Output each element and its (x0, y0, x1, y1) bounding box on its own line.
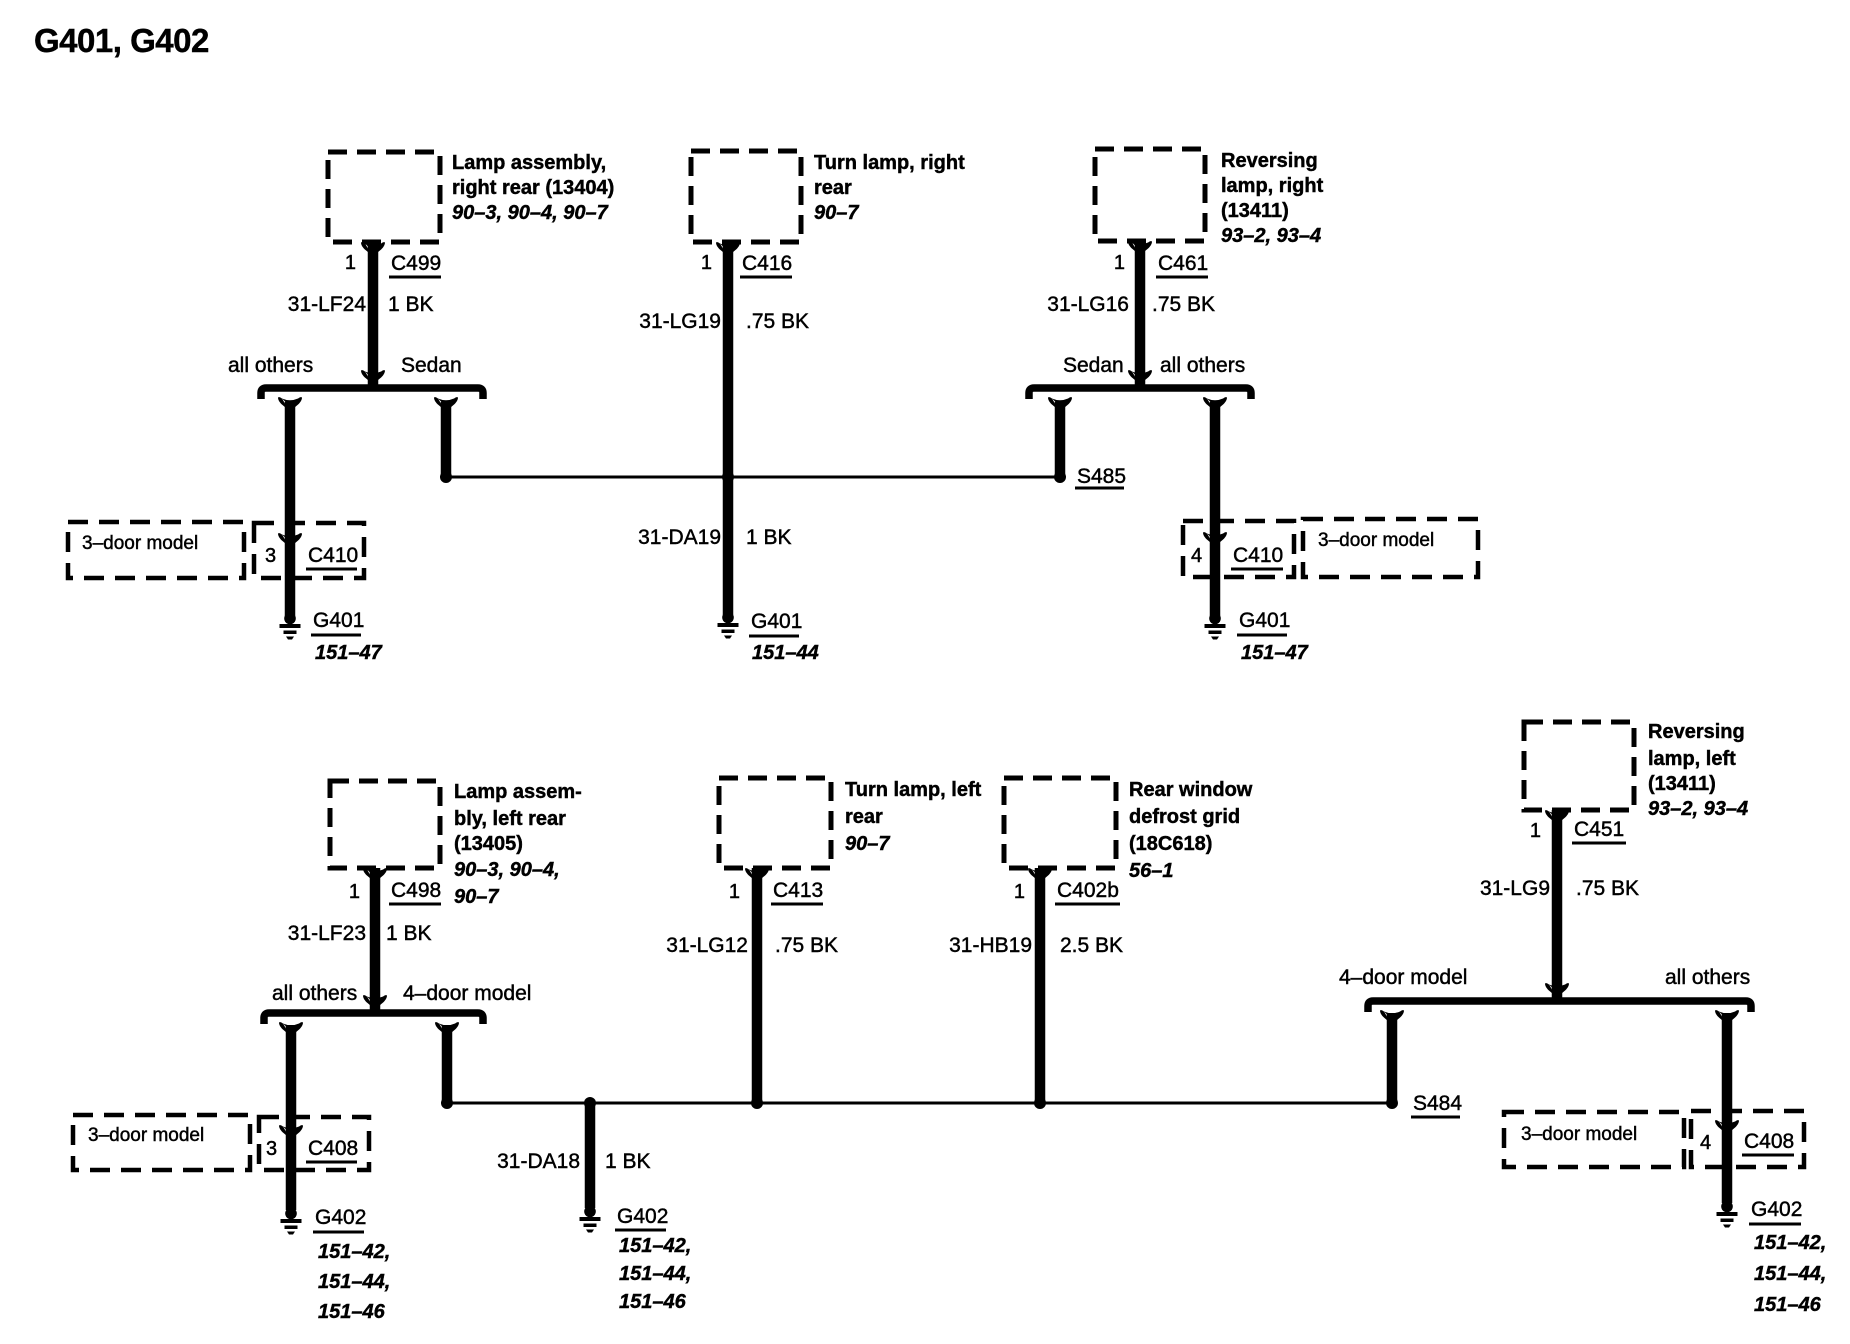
svg-text:4: 4 (1191, 545, 1202, 567)
svg-text:.75 BK: .75 BK (746, 310, 809, 333)
branch wire Sedan (right bracket) down to S485 (1055, 402, 1066, 477)
underline C408 left (306, 1161, 357, 1164)
svg-text:C413: C413 (773, 879, 823, 902)
svg-text:G401: G401 (313, 609, 364, 632)
branch all others down to ground G402 (286, 1025, 297, 1210)
svg-text:3: 3 (266, 1138, 277, 1160)
turn lamp right rear box (691, 151, 801, 242)
svg-text:90–7: 90–7 (814, 202, 859, 224)
svg-text:right rear (13404): right rear (13404) (452, 177, 614, 199)
turn lamp left rear box (719, 778, 831, 868)
branch arrow all others (bottom-right bracket) (1715, 1010, 1739, 1025)
svg-text:C408: C408 (1744, 1130, 1794, 1153)
svg-text:151–42,: 151–42, (318, 1241, 390, 1263)
connector C416 arrow (716, 242, 740, 257)
junction dot S485 (1054, 471, 1066, 483)
underline G402 middle (615, 1229, 666, 1232)
svg-text:G402: G402 (1751, 1198, 1802, 1221)
svg-text:C410: C410 (308, 544, 358, 567)
underline C498 (389, 903, 441, 906)
svg-text:1: 1 (1114, 252, 1125, 274)
connector C499 arrow (361, 242, 385, 257)
svg-text:.75 BK: .75 BK (1152, 293, 1215, 316)
svg-text:151–44: 151–44 (752, 642, 819, 664)
svg-text:G402: G402 (617, 1205, 668, 1228)
ground G401 right symbol (1205, 613, 1226, 640)
svg-text:151–46: 151–46 (1754, 1294, 1822, 1316)
svg-text:31-LG19: 31-LG19 (639, 310, 721, 333)
wire from reversing lamp left to bracket (1552, 810, 1563, 999)
connector C451 arrow (1545, 810, 1569, 825)
branch 4-door model down to junction line (442, 1025, 453, 1103)
underline C402b (1055, 903, 1120, 906)
branch arrow Sedan (left bracket) (434, 397, 458, 412)
svg-text:lamp, left: lamp, left (1648, 748, 1736, 770)
svg-text:Reversing: Reversing (1648, 721, 1745, 743)
junction dot at C413 wire (751, 1097, 763, 1109)
wire from lamp assembly left to bracket (370, 868, 381, 1011)
svg-text:151–47: 151–47 (315, 642, 383, 664)
svg-text:(13411): (13411) (1648, 773, 1716, 795)
svg-text:31-LF24: 31-LF24 (288, 293, 367, 316)
svg-text:31-HB19: 31-HB19 (949, 934, 1032, 957)
svg-text:31-LG9: 31-LG9 (1480, 877, 1550, 900)
underline C413 (771, 903, 823, 906)
branch arrow all others (left bracket) (278, 397, 302, 412)
svg-text:3–door model: 3–door model (82, 533, 198, 554)
svg-text:all others: all others (1665, 966, 1750, 989)
underline G402 left (313, 1231, 364, 1234)
svg-text:4–door model: 4–door model (403, 982, 531, 1005)
svg-text:lamp, right: lamp, right (1221, 175, 1324, 197)
svg-text:31-LF23: 31-LF23 (288, 922, 366, 945)
svg-text:1: 1 (729, 881, 740, 903)
svg-text:4–door model: 4–door model (1339, 966, 1467, 989)
connector C461 arrow (1128, 241, 1152, 256)
connector C408 arrow left (279, 1125, 303, 1140)
svg-text:G401, G402: G401, G402 (34, 22, 209, 59)
svg-text:(13411): (13411) (1221, 200, 1289, 222)
connector C410 box left (254, 523, 364, 578)
svg-text:(18C618): (18C618) (1129, 833, 1212, 855)
svg-text:Sedan: Sedan (1063, 354, 1124, 377)
junction dot at ground drop (584, 1097, 596, 1109)
svg-text:G402: G402 (315, 1206, 366, 1229)
svg-text:C451: C451 (1574, 818, 1624, 841)
svg-text:1: 1 (1530, 820, 1541, 842)
svg-text:C498: C498 (391, 879, 441, 902)
connector C408 box right (1691, 1111, 1804, 1167)
svg-text:(13405): (13405) (454, 833, 523, 855)
ground G401 left symbol (280, 613, 301, 640)
ground G402 middle symbol (580, 1206, 601, 1233)
underline G401 right (1237, 634, 1287, 637)
svg-text:Rear window: Rear window (1129, 779, 1253, 801)
junction dot left (440, 471, 452, 483)
branch all others down to ground G402 right (1722, 1013, 1733, 1203)
underline S484 (1411, 1116, 1460, 1119)
connector C413 arrow (745, 868, 769, 883)
wire from defrost grid down to junction (1035, 868, 1046, 1103)
underline C410 right (1231, 568, 1283, 571)
3-door model box top left (68, 522, 244, 578)
wire from turn lamp left down to junction (752, 868, 763, 1103)
wire from reversing lamp to bracket (1135, 241, 1146, 385)
svg-text:1: 1 (701, 252, 712, 274)
svg-text:151–46: 151–46 (318, 1301, 386, 1323)
svg-text:all others: all others (228, 354, 313, 377)
connector C408 arrow right (1715, 1120, 1739, 1135)
svg-text:1: 1 (345, 252, 356, 274)
wire down from splice to ground G402 middle (585, 1103, 596, 1208)
wire from turn lamp down to ground G401 (723, 242, 734, 615)
svg-text:Lamp assembly,: Lamp assembly, (452, 152, 606, 174)
svg-text:3–door model: 3–door model (88, 1125, 204, 1146)
underline C416 (740, 276, 792, 279)
svg-text:93–2, 93–4: 93–2, 93–4 (1221, 225, 1321, 247)
svg-text:S485: S485 (1077, 465, 1126, 488)
reversing lamp left box (13411) (1524, 722, 1634, 810)
svg-text:C499: C499 (391, 252, 441, 275)
splice bracket left (261, 388, 483, 399)
branch arrow 4-door model (bottom-left bracket) (435, 1022, 459, 1037)
svg-text:1 BK: 1 BK (388, 293, 434, 316)
svg-text:56–1: 56–1 (1129, 860, 1174, 882)
underline C408 right (1742, 1154, 1794, 1157)
branch wire Sedan down to junction (441, 402, 452, 477)
ground G402 left symbol (281, 1208, 302, 1235)
svg-text:151–44,: 151–44, (1754, 1263, 1826, 1285)
junction dot S484 (1386, 1097, 1398, 1109)
connector C498 arrow (363, 868, 387, 883)
svg-text:3–door model: 3–door model (1318, 530, 1434, 551)
splice bracket bottom right (1368, 1001, 1751, 1012)
underline G401 left (311, 634, 361, 637)
svg-text:S484: S484 (1413, 1092, 1462, 1115)
reversing lamp right box (13411) (1095, 149, 1205, 241)
svg-text:4: 4 (1700, 1132, 1711, 1154)
connector C410 box right (1183, 521, 1294, 577)
svg-text:31-DA19: 31-DA19 (638, 526, 721, 549)
lamp assembly right rear box (13404) (328, 152, 440, 242)
junction dot at C402b wire (1034, 1097, 1046, 1109)
arrow at right bracket from C461 wire (1128, 370, 1152, 385)
3-door model box top right (1303, 519, 1478, 577)
svg-text:151–44,: 151–44, (619, 1263, 691, 1285)
wire from lamp assembly to bracket (368, 242, 379, 385)
svg-text:151–47: 151–47 (1241, 642, 1309, 664)
3-door model box bottom right (1504, 1112, 1684, 1167)
svg-text:151–42,: 151–42, (1754, 1232, 1826, 1254)
connector C408 box left (259, 1117, 369, 1170)
svg-text:Sedan: Sedan (401, 354, 462, 377)
underline C461 (1156, 276, 1208, 279)
branch arrow 4-door model (bottom-right bracket) (1380, 1010, 1404, 1025)
splice bracket bottom left (264, 1013, 483, 1024)
svg-text:.75 BK: .75 BK (775, 934, 838, 957)
splice wire S484 horizontal (447, 1102, 1392, 1105)
svg-text:90–7: 90–7 (845, 833, 890, 855)
svg-text:1: 1 (349, 881, 360, 903)
svg-text:.75 BK: .75 BK (1576, 877, 1639, 900)
svg-text:1 BK: 1 BK (605, 1150, 651, 1173)
svg-text:Reversing: Reversing (1221, 150, 1318, 172)
lamp assembly left rear box (13405) (330, 781, 440, 868)
svg-text:1 BK: 1 BK (746, 526, 792, 549)
svg-text:G401: G401 (751, 610, 802, 633)
underline C410 left (306, 568, 357, 571)
underline G401 middle (749, 635, 799, 638)
svg-text:C410: C410 (1233, 544, 1283, 567)
svg-text:Lamp assem-: Lamp assem- (454, 781, 582, 803)
svg-text:G401: G401 (1239, 609, 1290, 632)
svg-text:Turn lamp, right: Turn lamp, right (814, 152, 965, 174)
splice wire S485 horizontal (446, 476, 1060, 479)
svg-text:defrost grid: defrost grid (1129, 806, 1240, 828)
svg-text:C461: C461 (1158, 252, 1208, 275)
svg-text:151–42,: 151–42, (619, 1235, 691, 1257)
svg-text:1 BK: 1 BK (386, 922, 432, 945)
svg-text:rear: rear (814, 177, 852, 199)
svg-text:31-LG16: 31-LG16 (1047, 293, 1129, 316)
ground G401 middle symbol (718, 612, 739, 639)
svg-text:90–3, 90–4, 90–7: 90–3, 90–4, 90–7 (452, 202, 609, 224)
svg-text:C416: C416 (742, 252, 792, 275)
branch arrow Sedan (right bracket) (1048, 397, 1072, 412)
branch 4-door model down to S484 (1387, 1013, 1398, 1103)
svg-text:151–46: 151–46 (619, 1291, 687, 1313)
svg-text:90–3, 90–4,: 90–3, 90–4, (454, 859, 560, 881)
svg-text:2.5 BK: 2.5 BK (1060, 934, 1123, 957)
junction dot middle (722, 471, 734, 483)
svg-text:Turn lamp, left: Turn lamp, left (845, 779, 982, 801)
svg-text:3: 3 (265, 545, 276, 567)
arrow at bottom-left bracket from C498 wire (363, 995, 387, 1010)
svg-text:C408: C408 (308, 1137, 358, 1160)
svg-text:31-LG12: 31-LG12 (666, 934, 748, 957)
branch arrow all others (bottom-left bracket) (279, 1022, 303, 1037)
connector C410 arrow right (1203, 532, 1227, 547)
ground G402 right symbol (1717, 1201, 1738, 1228)
underline S485 (1075, 487, 1124, 490)
underline C451 (1572, 842, 1626, 845)
arrow at bracket from wire (361, 370, 385, 385)
connector C410 arrow left (278, 533, 302, 548)
svg-text:all others: all others (1160, 354, 1245, 377)
branch wire all others down to ground (1210, 402, 1221, 617)
svg-text:31-DA18: 31-DA18 (497, 1150, 580, 1173)
rear window defrost grid box (18C618) (1004, 778, 1116, 868)
connector C402b arrow (1028, 868, 1052, 883)
splice bracket right (1029, 388, 1251, 399)
svg-text:rear: rear (845, 806, 883, 828)
svg-text:90–7: 90–7 (454, 886, 499, 908)
underline C499 (389, 276, 441, 279)
svg-text:93–2, 93–4: 93–2, 93–4 (1648, 798, 1748, 820)
svg-text:151–44,: 151–44, (318, 1271, 390, 1293)
svg-text:1: 1 (1014, 881, 1025, 903)
junction dot at 4-door branch (441, 1097, 453, 1109)
underline G402 right (1749, 1223, 1801, 1226)
branch wire all others to ground G401 (285, 402, 296, 617)
svg-text:bly, left rear: bly, left rear (454, 808, 566, 830)
svg-text:all others: all others (272, 982, 357, 1005)
svg-text:C402b: C402b (1057, 879, 1119, 902)
branch arrow all others (right bracket) (1203, 397, 1227, 412)
svg-text:3–door model: 3–door model (1521, 1124, 1637, 1145)
3-door model box bottom left (73, 1115, 250, 1170)
arrow at bottom-right bracket from C451 wire (1545, 983, 1569, 998)
